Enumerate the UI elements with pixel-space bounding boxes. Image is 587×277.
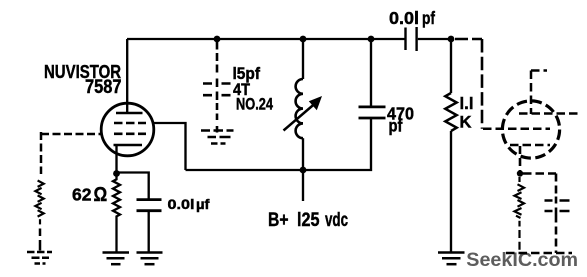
- wire inductor top lead: [302, 39, 304, 79]
- svg-text:7587: 7587: [85, 77, 122, 98]
- resistor 62ohm: [113, 174, 120, 253]
- svg-text:µf: µf: [196, 197, 210, 212]
- V1 grid 1: [114, 122, 146, 125]
- node junction dot V2 cathode: [517, 170, 523, 176]
- resistor V2 cathode dashed: [515, 177, 525, 253]
- capacitor 0.01pf plates: [404, 28, 406, 51]
- wire dashed grid resistor top lead: [40, 132, 43, 174]
- capacitor 15pf plate top: [203, 82, 231, 85]
- svg-text:NO.24: NO.24: [236, 96, 274, 114]
- wire cathode to bypass cap: [117, 173, 149, 200]
- node junction dot B+: [300, 167, 307, 174]
- capacitor 0.01uf bottom lead: [148, 211, 150, 252]
- capacitor 15pf tick bottom: [216, 92, 219, 101]
- wire dashed vertical to V2 grid: [481, 39, 484, 129]
- svg-text:l.l: l.l: [460, 94, 474, 113]
- resistor 1.1K zigzag: [445, 93, 456, 131]
- svg-text:vdc: vdc: [325, 210, 348, 231]
- V2 top lead dashed: [530, 71, 533, 115]
- wire V1 cathode lead: [115, 145, 117, 174]
- svg-text:l25: l25: [297, 210, 320, 231]
- inductor arrow: [284, 104, 316, 131]
- tube V2 envelope dashed: [502, 101, 559, 158]
- ground (62 ohm): [103, 253, 130, 265]
- ground dashed (15pf): [201, 131, 234, 144]
- ground (0.01uf): [137, 253, 163, 265]
- node junction dot output: [448, 36, 455, 43]
- svg-text:B+: B+: [268, 210, 289, 231]
- wire V1 screen to B+ bus: [154, 123, 186, 170]
- ground dashed (grid resistor): [27, 252, 52, 264]
- svg-text:0.0l: 0.0l: [389, 8, 419, 28]
- wire dashed coupling top right: [455, 38, 482, 41]
- wire top bus left segment: [127, 38, 405, 40]
- svg-text:K: K: [460, 113, 473, 132]
- wire dashed into V2 grid: [483, 128, 550, 131]
- V1 grid 2: [114, 133, 146, 136]
- V1 plate: [116, 112, 143, 115]
- V2 plate row dashed: [519, 112, 579, 115]
- resistor 1.1K bottom lead: [450, 131, 452, 252]
- svg-text:0.0l: 0.0l: [168, 197, 195, 212]
- capacitor 15pf tick top: [216, 79, 219, 88]
- wire plate lead V1: [126, 39, 128, 113]
- capacitor 470pf plates: [359, 106, 386, 109]
- capacitor 470pf top lead: [370, 39, 372, 106]
- inductor L variable coil: [296, 79, 303, 138]
- node junction dot 470pf branch: [368, 36, 375, 43]
- capacitor 15pf dashed top lead: [216, 42, 219, 76]
- node junction dot cathode: [113, 170, 120, 177]
- wire dashed bypass bottom lead: [555, 215, 558, 254]
- capacitor 15pf plate bottom: [203, 94, 231, 97]
- V2 cathode lead dashed: [519, 146, 522, 171]
- capacitor bypass dashed plate top: [545, 199, 570, 202]
- wire dashed grid resistor bottom lead: [39, 229, 42, 251]
- wire dashed cathode to bypass: [523, 172, 556, 175]
- wire inductor bottom lead: [302, 138, 304, 170]
- tube V1 envelope: [101, 103, 154, 156]
- svg-text:pf: pf: [389, 116, 403, 136]
- wire top bus right segment: [418, 38, 451, 40]
- wire dashed grid line left: [41, 133, 101, 136]
- resistor 1.1K top lead: [450, 39, 452, 93]
- wire bottom B+ bus: [186, 119, 372, 170]
- V2 cathode row dashed: [510, 144, 550, 147]
- svg-text:62: 62: [72, 184, 92, 204]
- resistor grid leak (zigzag): [35, 181, 43, 225]
- V1 cathode: [114, 144, 143, 147]
- svg-text:pf: pf: [422, 8, 435, 28]
- node junction dot inductor branch: [300, 36, 307, 43]
- ground (1.1K): [438, 253, 465, 265]
- wire B+ lead: [302, 170, 304, 201]
- capacitor bypass dashed plate bottom: [545, 210, 570, 213]
- svg-text:Ω: Ω: [94, 184, 108, 206]
- node junction dot 15pf branch: [214, 36, 221, 43]
- wire dashed bypass top lead: [555, 174, 558, 198]
- wire dashed bottom bus right: [506, 252, 572, 255]
- capacitor 15pf bottom lead dashed: [216, 103, 219, 133]
- capacitor 0.01uf plates: [137, 198, 162, 201]
